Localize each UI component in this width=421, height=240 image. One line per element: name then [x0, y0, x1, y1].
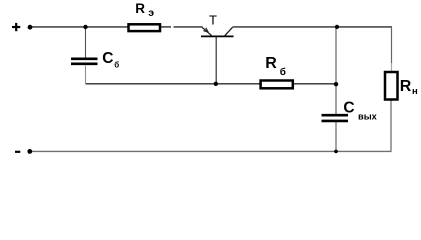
svg-text:вых: вых — [358, 111, 378, 121]
svg-text:э: э — [148, 7, 154, 19]
svg-text:б: б — [114, 61, 119, 70]
svg-text:R: R — [265, 55, 277, 72]
svg-text:T: T — [209, 13, 217, 28]
svg-text:C: C — [343, 100, 354, 117]
svg-text:б: б — [280, 66, 286, 78]
svg-text:C: C — [102, 50, 113, 67]
svg-text:R: R — [400, 78, 412, 95]
svg-text:н: н — [412, 86, 418, 97]
svg-text:R: R — [135, 1, 145, 16]
